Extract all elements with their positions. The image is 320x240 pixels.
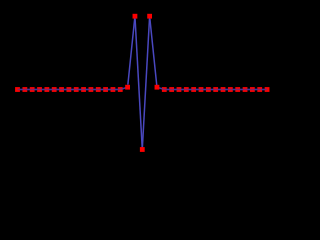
data point marker k=5: [52, 87, 57, 92]
data point marker k=24: [191, 87, 196, 92]
data point marker k=13: [111, 87, 116, 92]
data point marker k=33: [257, 87, 262, 92]
data point marker k=6: [59, 87, 64, 92]
data point marker k=8: [74, 87, 79, 92]
data point marker k=3: [37, 87, 42, 92]
baseline polyline left (under): [18, 87, 128, 89]
wire segment 15-16: [128, 16, 135, 85]
data point marker k=14: [118, 87, 123, 92]
data point marker k=27: [213, 87, 218, 92]
chart: discrete impulse/wavelet line plot on black background: [0, 0, 273, 174]
data point marker k=17: [140, 147, 145, 152]
wire segment 17-18: [142, 16, 149, 147]
data point marker k=11: [96, 87, 101, 92]
data point marker k=19: [155, 85, 160, 90]
data point marker k=26: [206, 87, 211, 92]
data point marker k=28: [221, 87, 226, 92]
data point marker k=7: [66, 87, 71, 92]
data point marker k=16: [133, 14, 138, 19]
baseline polyline left (over band): [18, 87, 128, 89]
data point marker k=23: [184, 87, 189, 92]
data point marker k=29: [228, 87, 233, 92]
data point marker k=9: [81, 87, 86, 92]
wire segment 18-19: [150, 19, 157, 88]
data point marker k=31: [243, 87, 248, 92]
data point marker k=21: [169, 87, 174, 92]
data point marker k=12: [103, 87, 108, 92]
data point marker k=30: [235, 87, 240, 92]
data point marker k=15: [125, 85, 130, 90]
wire segment 16-17: [135, 19, 142, 150]
data point marker k=20: [162, 87, 167, 92]
data point marker k=32: [250, 87, 255, 92]
data point marker k=18: [147, 14, 152, 19]
data point marker k=0: [15, 87, 20, 92]
data point marker k=1: [22, 87, 27, 92]
data point marker k=25: [199, 87, 204, 92]
data point marker k=10: [89, 87, 94, 92]
data point marker k=4: [44, 87, 49, 92]
baseline polyline right (under): [157, 87, 267, 89]
data point marker k=2: [30, 87, 35, 92]
data point marker k=34: [265, 87, 270, 92]
baseline polyline right (over band): [157, 87, 267, 89]
data point marker k=22: [177, 87, 182, 92]
